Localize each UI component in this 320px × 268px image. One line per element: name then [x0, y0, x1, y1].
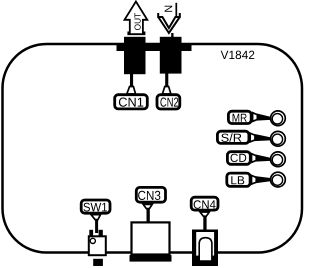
- callout pointer CN1: [127, 74, 136, 95]
- callout pointer CD: [252, 154, 271, 163]
- arrow IN (input, above CN2): [158, 3, 180, 37]
- connector CN3: [130, 222, 172, 261]
- connector mounting flange band: [117, 43, 192, 51]
- label CN4: [191, 197, 218, 210]
- callout pointer S/R: [250, 133, 270, 142]
- switch SW1: [89, 230, 106, 266]
- label S/R: [217, 131, 249, 143]
- label V1842: [221, 51, 255, 60]
- label CD: [227, 152, 250, 165]
- button S/R (double circle): [271, 131, 286, 146]
- label MR: [228, 111, 251, 123]
- board outline V1842 module: [3, 44, 303, 253]
- callout pointer CN2: [162, 74, 171, 95]
- callout pointer SW1: [91, 215, 101, 233]
- button CD (double circle): [271, 152, 286, 167]
- callout pointer MR: [253, 113, 271, 122]
- connector CN4 (power jack): [192, 230, 218, 267]
- button MR (double circle): [271, 111, 286, 126]
- label CN1: [115, 95, 148, 109]
- connector CN1: [124, 37, 146, 74]
- label CN2: [157, 95, 180, 109]
- label LB: [227, 173, 250, 186]
- label CN3: [136, 187, 165, 202]
- button LB (double circle): [271, 172, 286, 187]
- connector CN2: [160, 37, 182, 74]
- arrow OUT (output, above CN1): [125, 2, 148, 35]
- callout pointer LB: [252, 175, 271, 184]
- callout pointer CN4: [200, 212, 209, 230]
- label SW1: [81, 200, 110, 213]
- callout pointer CN3: [143, 204, 152, 221]
